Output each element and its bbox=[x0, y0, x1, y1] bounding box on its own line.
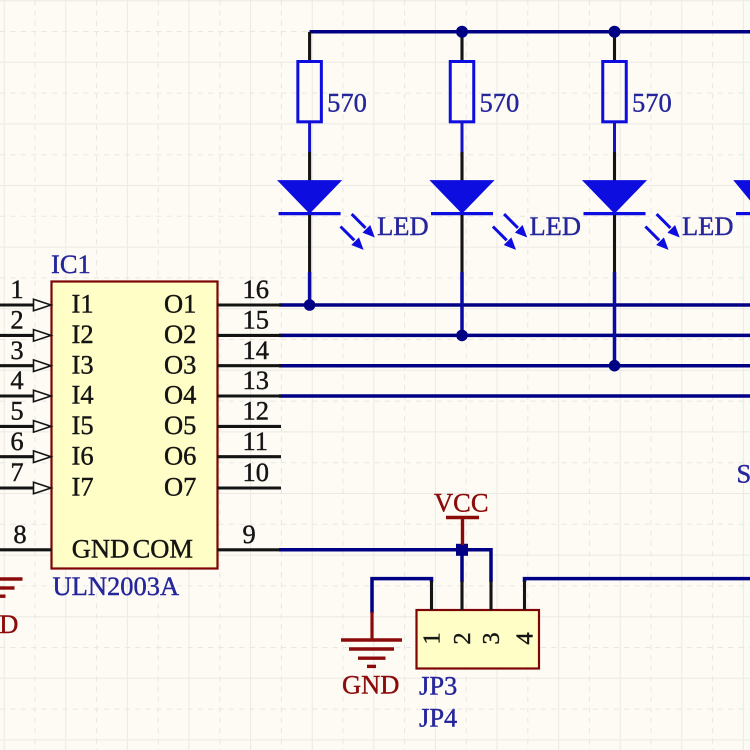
pin 3 bbox=[478, 581, 505, 645]
svg-text:15: 15 bbox=[243, 305, 270, 335]
LED D3 bbox=[584, 181, 680, 250]
pin 8 (GND) bbox=[0, 519, 129, 563]
svg-text:JP4: JP4 bbox=[419, 703, 457, 733]
svg-text:3: 3 bbox=[10, 335, 23, 365]
svg-text:570: 570 bbox=[480, 88, 520, 118]
pin 1 (I1) with input arrow bbox=[0, 274, 94, 318]
pin 10 (O7) bbox=[164, 457, 281, 501]
junction bbox=[609, 360, 621, 372]
svg-text:570: 570 bbox=[327, 88, 367, 118]
wire bbox=[461, 122, 464, 153]
wire bbox=[308, 122, 311, 153]
wire bbox=[460, 272, 464, 335]
IC U1 body bbox=[52, 282, 218, 569]
pin 6 (I6) with input arrow bbox=[0, 426, 94, 470]
wire bbox=[613, 215, 616, 273]
pin 2 (I2) with input arrow bbox=[0, 305, 94, 349]
pin 3 (I3) with input arrow bbox=[0, 335, 94, 379]
svg-text:2: 2 bbox=[10, 305, 23, 335]
pin 13 (O4) bbox=[164, 365, 281, 409]
power VCC symbol bbox=[446, 518, 479, 546]
svg-text:O2: O2 bbox=[164, 319, 196, 349]
svg-text:6: 6 bbox=[10, 426, 23, 456]
wire bbox=[460, 550, 464, 582]
svg-text:1: 1 bbox=[419, 632, 446, 644]
ground (left, partial) bbox=[0, 579, 23, 596]
svg-text:4: 4 bbox=[10, 365, 23, 395]
svg-text:I6: I6 bbox=[72, 440, 94, 470]
svg-text:12: 12 bbox=[243, 396, 270, 426]
svg-text:16: 16 bbox=[243, 274, 270, 304]
junction bbox=[609, 26, 621, 38]
wire bbox=[460, 32, 463, 61]
svg-text:GND: GND bbox=[72, 533, 129, 563]
wire COM net bbox=[279, 550, 491, 582]
svg-text:ULN2003A: ULN2003A bbox=[53, 571, 180, 601]
svg-text:O3: O3 bbox=[164, 349, 196, 379]
wire VCC bus (top) bbox=[310, 30, 750, 34]
svg-text:I4: I4 bbox=[72, 380, 94, 410]
svg-text:I7: I7 bbox=[72, 472, 94, 502]
LED D4 (partial, clipped at right edge) bbox=[736, 181, 750, 213]
resistor R3 bbox=[603, 62, 627, 122]
svg-text:13: 13 bbox=[243, 365, 270, 395]
pin 1 bbox=[419, 581, 446, 645]
pin 2 bbox=[449, 581, 476, 645]
svg-text:O1: O1 bbox=[164, 289, 196, 319]
pin 4 bbox=[512, 581, 539, 645]
wire net O2 bbox=[279, 334, 750, 338]
pin 9 (COM) bbox=[133, 519, 281, 563]
svg-text:14: 14 bbox=[243, 335, 270, 365]
ground symbol bbox=[341, 612, 402, 666]
resistor R2 bbox=[450, 62, 474, 122]
svg-text:LED: LED bbox=[530, 211, 582, 241]
svg-text:I1: I1 bbox=[72, 289, 94, 319]
svg-text:3: 3 bbox=[478, 632, 505, 644]
svg-text:I5: I5 bbox=[72, 410, 94, 440]
resistor R1 bbox=[298, 62, 322, 122]
junction bbox=[304, 299, 316, 311]
svg-text:IC1: IC1 bbox=[51, 249, 91, 279]
svg-text:O7: O7 bbox=[164, 472, 196, 502]
wire bbox=[460, 215, 463, 273]
pin 12 (O5) bbox=[164, 396, 281, 440]
svg-text:10: 10 bbox=[243, 457, 270, 487]
pin 15 (O2) bbox=[164, 305, 281, 349]
LED D2 bbox=[431, 181, 527, 250]
wire (JP pin4 net) bbox=[525, 579, 750, 582]
wire net O4 bbox=[279, 394, 750, 398]
svg-text:O4: O4 bbox=[164, 380, 196, 410]
svg-text:8: 8 bbox=[13, 519, 26, 549]
svg-text:7: 7 bbox=[10, 457, 23, 487]
svg-text:2: 2 bbox=[449, 632, 476, 644]
connector JP3 body bbox=[417, 610, 540, 669]
junction (VCC tap) bbox=[456, 544, 468, 556]
wire net O3 bbox=[279, 364, 750, 368]
pin 5 (I5) with input arrow bbox=[0, 396, 94, 440]
svg-text:VCC: VCC bbox=[434, 488, 489, 518]
wire net O1 bbox=[279, 303, 750, 307]
svg-text:9: 9 bbox=[243, 519, 256, 549]
svg-text:570: 570 bbox=[632, 88, 672, 118]
svg-text:1: 1 bbox=[10, 274, 23, 304]
svg-text:11: 11 bbox=[243, 426, 269, 456]
svg-text:LED: LED bbox=[377, 211, 429, 241]
pin 14 (O3) bbox=[164, 335, 281, 379]
svg-text:JP3: JP3 bbox=[419, 671, 457, 701]
svg-text:COM: COM bbox=[133, 533, 193, 563]
pin 4 (I4) with input arrow bbox=[0, 365, 94, 409]
wire bbox=[308, 272, 312, 305]
wire bbox=[308, 215, 311, 273]
svg-text:I2: I2 bbox=[72, 319, 94, 349]
svg-text:I3: I3 bbox=[72, 349, 94, 379]
wire bbox=[613, 32, 616, 61]
junction bbox=[456, 330, 468, 342]
svg-text:4: 4 bbox=[512, 632, 539, 644]
svg-text:5: 5 bbox=[10, 396, 23, 426]
wire bbox=[613, 272, 617, 366]
svg-text:LED: LED bbox=[682, 211, 734, 241]
svg-text:GND: GND bbox=[342, 670, 399, 700]
pin 7 (I7) with input arrow bbox=[0, 457, 94, 501]
LED D1 bbox=[279, 181, 375, 250]
svg-text:S: S bbox=[737, 459, 750, 489]
svg-text:O5: O5 bbox=[164, 410, 196, 440]
svg-text:GND: GND bbox=[0, 609, 18, 639]
wire bbox=[308, 32, 311, 61]
wire (JP pin1 to ground) bbox=[372, 579, 432, 613]
wire bbox=[613, 122, 616, 153]
svg-text:O6: O6 bbox=[164, 440, 196, 470]
junction bbox=[456, 26, 468, 38]
pin 11 (O6) bbox=[164, 426, 281, 470]
pin 16 (O1) bbox=[164, 274, 281, 318]
